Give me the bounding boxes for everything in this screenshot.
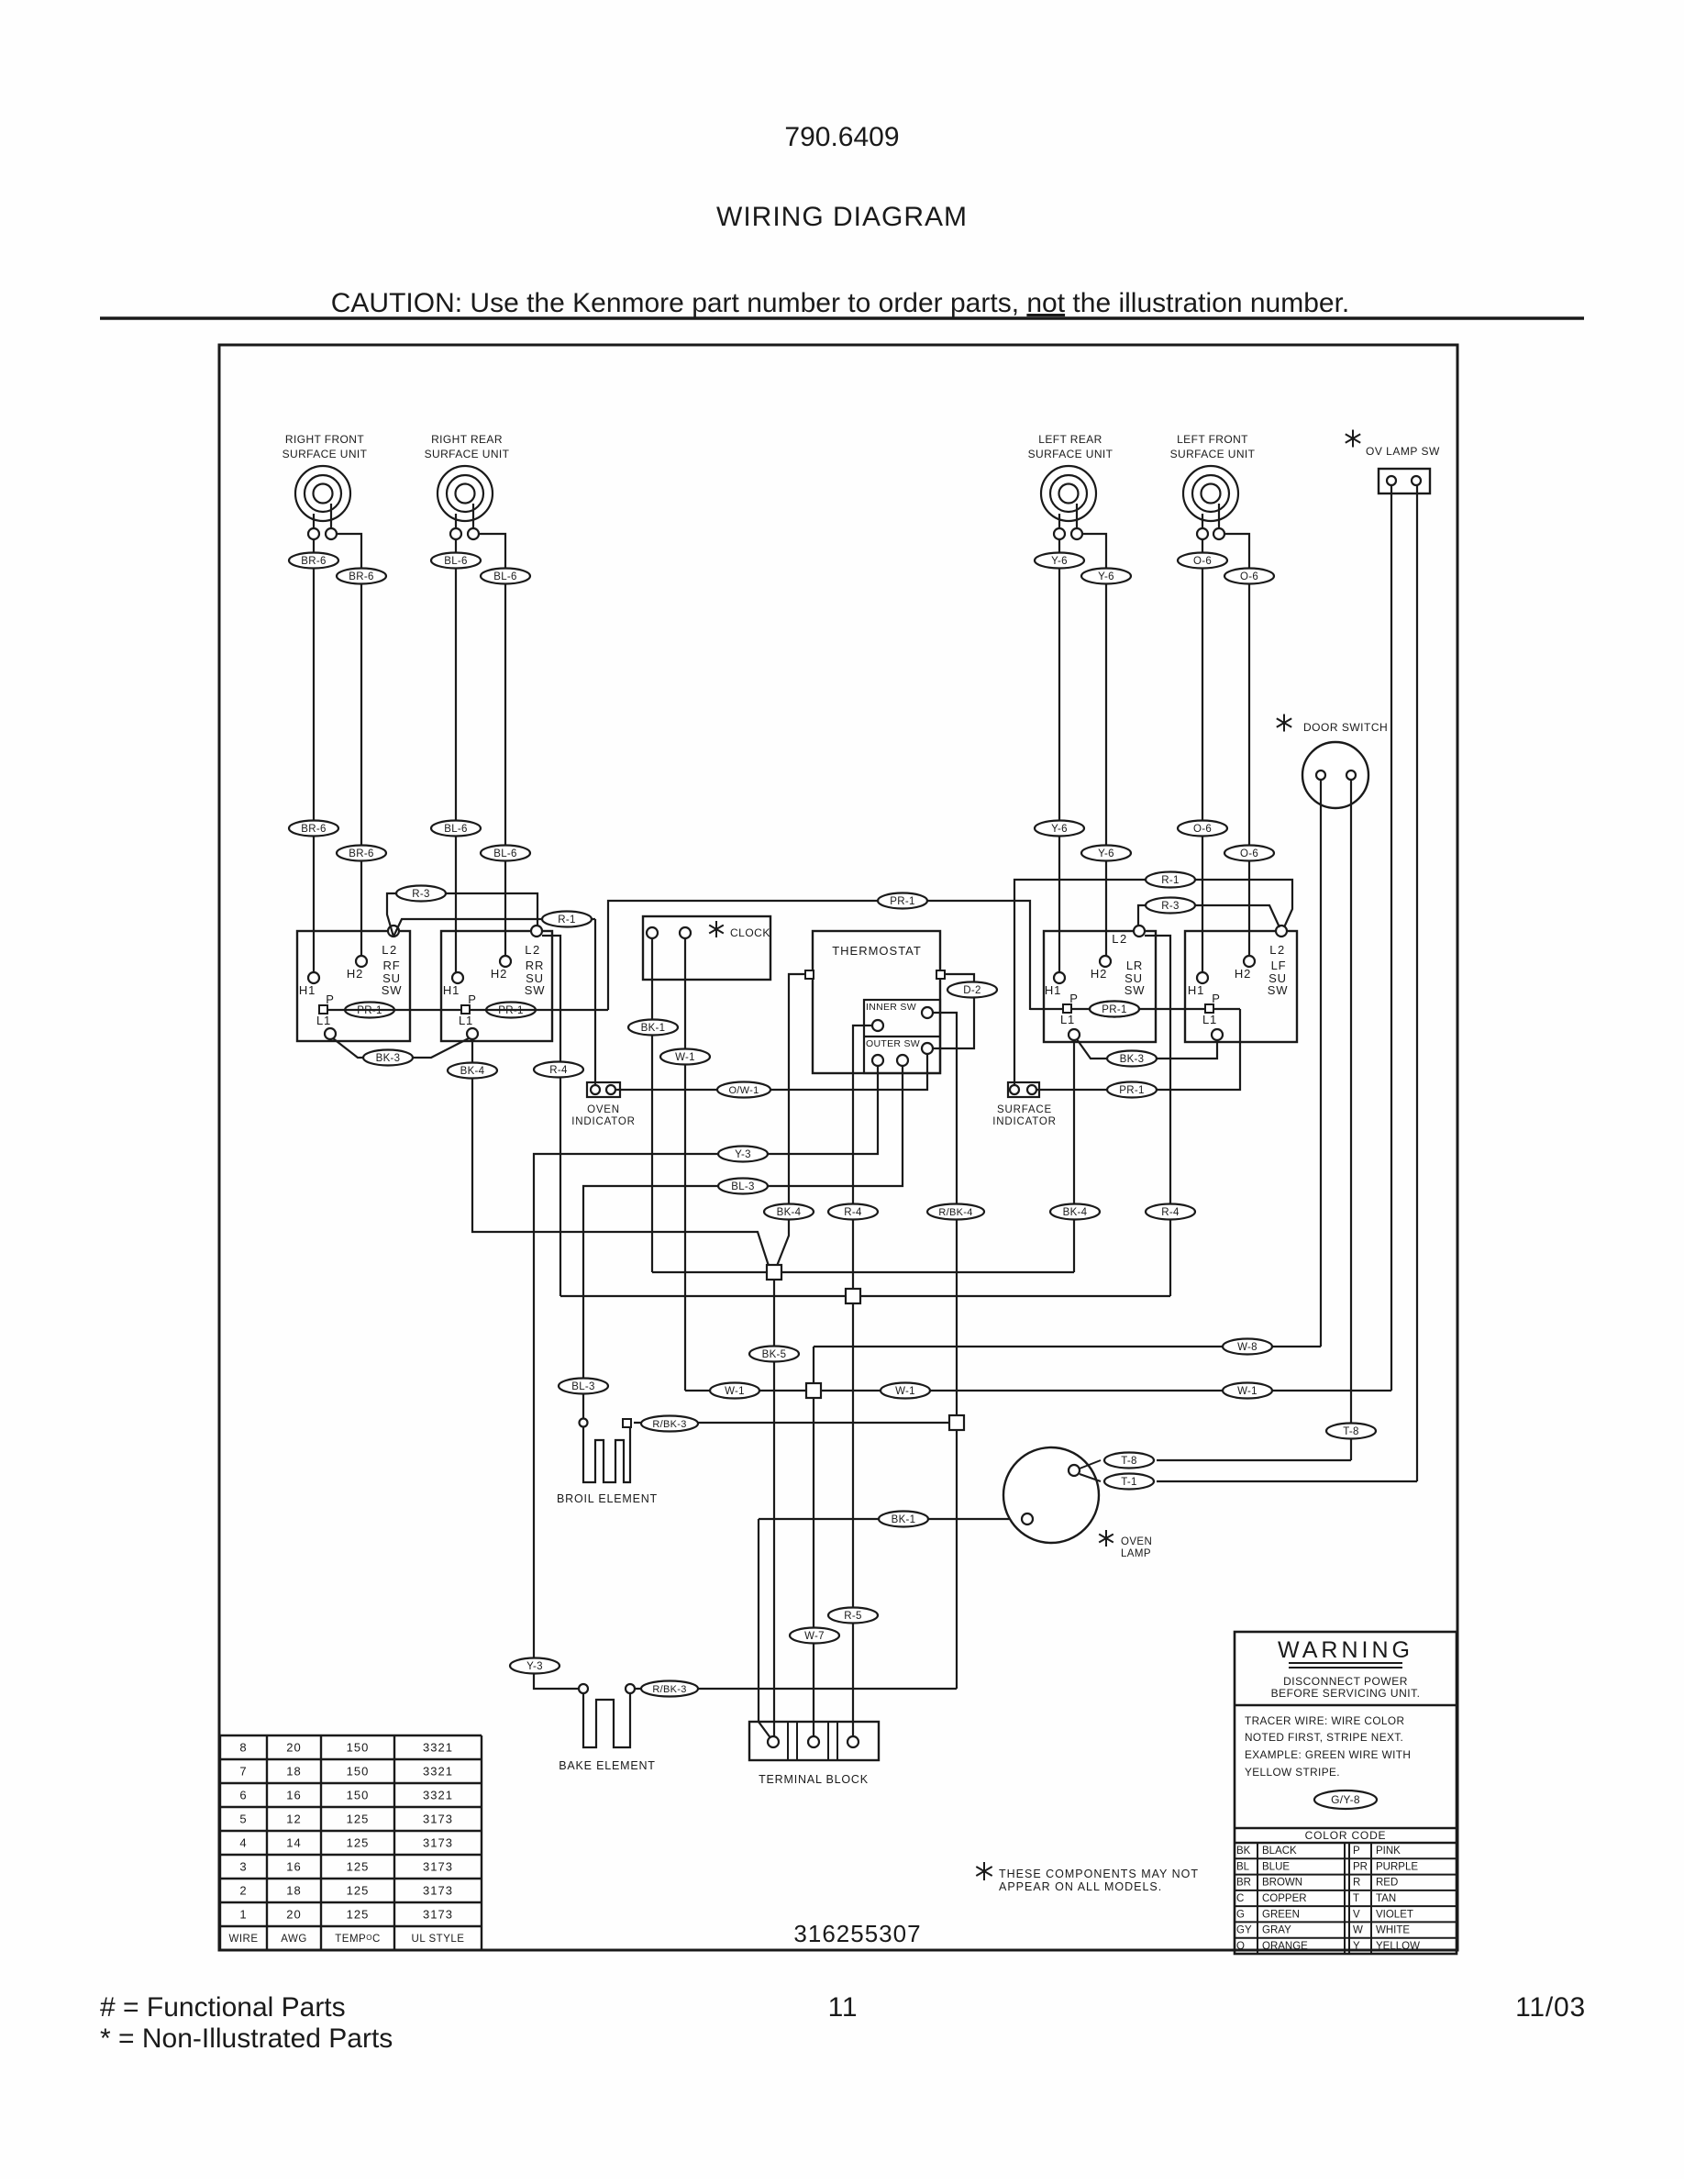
svg-text:6: 6 [239, 1789, 247, 1802]
svg-text:16: 16 [286, 1860, 301, 1874]
svg-text:SURFACE UNIT: SURFACE UNIT [1028, 448, 1113, 460]
svg-text:SW: SW [1125, 983, 1146, 997]
svg-text:O-6: O-6 [1193, 824, 1212, 835]
svg-text:Y-6: Y-6 [1051, 556, 1068, 567]
svg-text:COLOR CODE: COLOR CODE [1305, 1829, 1387, 1842]
svg-text:3321: 3321 [423, 1765, 453, 1779]
svg-text:3173: 3173 [423, 1908, 453, 1922]
svg-text:RIGHT REAR: RIGHT REAR [431, 433, 503, 446]
svg-text:O: O [1236, 1941, 1245, 1952]
svg-text:O-6: O-6 [1240, 571, 1258, 582]
svg-text:TERMINAL BLOCK: TERMINAL BLOCK [759, 1773, 869, 1786]
svg-text:W-1: W-1 [895, 1386, 915, 1397]
svg-text:3: 3 [239, 1860, 247, 1874]
svg-text:16: 16 [286, 1789, 301, 1802]
svg-text:P: P [1353, 1846, 1360, 1857]
svg-text:COPPER: COPPER [1262, 1893, 1307, 1904]
svg-text:LEFT REAR: LEFT REAR [1038, 433, 1102, 446]
svg-text:NOTED FIRST, STRIPE NEXT.: NOTED FIRST, STRIPE NEXT. [1245, 1731, 1403, 1744]
svg-text:1: 1 [239, 1908, 247, 1922]
svg-text:EXAMPLE: GREEN WIRE WITH: EXAMPLE: GREEN WIRE WITH [1245, 1748, 1411, 1761]
svg-text:THERMOSTAT: THERMOSTAT [832, 944, 922, 958]
svg-text:H1: H1 [1188, 983, 1204, 997]
svg-text:R-4: R-4 [844, 1207, 862, 1218]
svg-text:BK: BK [1236, 1846, 1251, 1857]
svg-text:PINK: PINK [1376, 1846, 1401, 1857]
svg-text:P: P [468, 992, 476, 1006]
svg-text:# = Functional Parts: # = Functional Parts [100, 1992, 346, 2023]
svg-text:C: C [1236, 1893, 1244, 1904]
svg-text:PR-1: PR-1 [1119, 1085, 1144, 1096]
svg-text:Y-3: Y-3 [735, 1149, 751, 1160]
svg-text:O-6: O-6 [1240, 848, 1258, 859]
svg-text:BL-6: BL-6 [444, 824, 468, 835]
svg-text:BK-3: BK-3 [376, 1053, 401, 1064]
svg-text:P: P [1212, 992, 1220, 1005]
svg-text:BAKE ELEMENT: BAKE ELEMENT [559, 1759, 655, 1772]
svg-text:WIRE: WIRE [228, 1934, 258, 1945]
svg-text:GY: GY [1236, 1925, 1252, 1936]
svg-text:125: 125 [347, 1908, 370, 1922]
svg-text:PR: PR [1353, 1861, 1368, 1872]
svg-text:125: 125 [347, 1836, 370, 1850]
svg-text:APPEAR ON ALL MODELS.: APPEAR ON ALL MODELS. [999, 1880, 1162, 1893]
svg-text:WARNING: WARNING [1278, 1637, 1413, 1663]
svg-text:D-2: D-2 [963, 985, 980, 996]
svg-text:YELLOW: YELLOW [1376, 1941, 1420, 1952]
svg-text:BROIL ELEMENT: BROIL ELEMENT [557, 1492, 658, 1505]
svg-text:W-1: W-1 [675, 1052, 695, 1063]
svg-text:3321: 3321 [423, 1789, 453, 1802]
svg-text:L2: L2 [1269, 943, 1285, 957]
svg-text:L2: L2 [525, 943, 540, 957]
svg-text:W: W [1353, 1925, 1363, 1936]
svg-text:R-1: R-1 [1161, 875, 1179, 886]
svg-text:BK-1: BK-1 [641, 1023, 666, 1034]
svg-text:12: 12 [286, 1813, 301, 1826]
svg-text:T: T [1353, 1893, 1359, 1904]
svg-text:LEFT FRONT: LEFT FRONT [1177, 433, 1248, 446]
svg-text:3173: 3173 [423, 1860, 453, 1874]
svg-text:SW: SW [382, 983, 403, 997]
svg-text:125: 125 [347, 1813, 370, 1826]
svg-text:CLOCK: CLOCK [730, 926, 770, 939]
svg-text:GRAY: GRAY [1262, 1925, 1291, 1936]
svg-text:14: 14 [286, 1836, 301, 1850]
svg-text:PURPLE: PURPLE [1376, 1861, 1418, 1872]
svg-text:TAN: TAN [1376, 1893, 1396, 1904]
svg-text:125: 125 [347, 1860, 370, 1874]
svg-text:Y-6: Y-6 [1098, 848, 1114, 859]
svg-text:4: 4 [239, 1836, 247, 1850]
svg-text:Y-3: Y-3 [526, 1661, 543, 1672]
svg-text:18: 18 [286, 1884, 301, 1898]
svg-text:W-7: W-7 [804, 1631, 825, 1642]
svg-text:BR-6: BR-6 [349, 571, 373, 582]
svg-text:L2: L2 [1112, 932, 1127, 946]
svg-text:BL-6: BL-6 [493, 848, 517, 859]
svg-text:R-4: R-4 [549, 1065, 568, 1076]
svg-text:18: 18 [286, 1765, 301, 1779]
svg-text:CAUTION: Use the Kenmore part: CAUTION: Use the Kenmore part number to … [331, 288, 1350, 318]
svg-text:BLACK: BLACK [1262, 1846, 1297, 1857]
svg-text:125: 125 [347, 1884, 370, 1898]
svg-text:7: 7 [239, 1765, 247, 1779]
svg-text:L1: L1 [1202, 1013, 1217, 1026]
svg-text:3321: 3321 [423, 1741, 453, 1755]
svg-text:SURFACE UNIT: SURFACE UNIT [283, 448, 368, 460]
svg-text:SURFACE UNIT: SURFACE UNIT [425, 448, 510, 460]
svg-text:3173: 3173 [423, 1884, 453, 1898]
svg-text:INDICATOR: INDICATOR [571, 1116, 635, 1127]
svg-text:VIOLET: VIOLET [1376, 1909, 1413, 1920]
svg-text:11/03: 11/03 [1515, 1992, 1586, 2023]
svg-text:L1: L1 [316, 1014, 331, 1027]
svg-text:L1: L1 [1060, 1013, 1075, 1026]
svg-text:RIGHT FRONT: RIGHT FRONT [285, 433, 364, 446]
svg-text:H2: H2 [1235, 967, 1251, 981]
svg-text:20: 20 [286, 1741, 301, 1755]
svg-text:5: 5 [239, 1813, 247, 1826]
svg-text:H1: H1 [299, 983, 316, 997]
svg-text:O/W-1: O/W-1 [728, 1085, 759, 1096]
svg-text:BK-4: BK-4 [460, 1066, 485, 1077]
svg-text:3173: 3173 [423, 1836, 453, 1850]
svg-text:Y: Y [1353, 1941, 1360, 1952]
svg-text:* = Non-Illustrated Parts: * = Non-Illustrated Parts [100, 2023, 393, 2054]
svg-text:RR: RR [526, 959, 544, 972]
svg-text:W-8: W-8 [1237, 1342, 1257, 1353]
svg-text:BL-3: BL-3 [731, 1181, 755, 1192]
svg-text:H1: H1 [443, 983, 460, 997]
svg-text:P: P [326, 992, 334, 1006]
svg-text:G: G [1236, 1909, 1245, 1920]
svg-text:BR-6: BR-6 [301, 824, 326, 835]
svg-text:R: R [1353, 1878, 1360, 1889]
svg-text:RF: RF [383, 959, 401, 972]
svg-text:H2: H2 [347, 967, 363, 981]
svg-text:L1: L1 [459, 1014, 473, 1027]
svg-text:GREEN: GREEN [1262, 1909, 1300, 1920]
svg-text:2: 2 [239, 1884, 247, 1898]
svg-text:Y-6: Y-6 [1051, 824, 1068, 835]
svg-text:AWG: AWG [281, 1934, 307, 1945]
svg-text:H2: H2 [491, 967, 507, 981]
svg-text:L2: L2 [382, 943, 397, 957]
svg-text:UL STYLE: UL STYLE [412, 1934, 465, 1945]
svg-text:20: 20 [286, 1908, 301, 1922]
svg-text:R-5: R-5 [844, 1611, 861, 1622]
svg-text:WIRING DIAGRAM: WIRING DIAGRAM [716, 202, 968, 232]
svg-text:BK-4: BK-4 [1063, 1207, 1088, 1218]
svg-text:BK-3: BK-3 [1120, 1054, 1145, 1065]
svg-text:BR-6: BR-6 [301, 556, 326, 567]
svg-text:PR-1: PR-1 [1102, 1004, 1126, 1015]
svg-text:R-1: R-1 [558, 915, 575, 926]
svg-text:BR: BR [1236, 1878, 1251, 1889]
svg-text:T-8: T-8 [1121, 1456, 1137, 1467]
svg-text:BK-5: BK-5 [762, 1349, 787, 1360]
svg-text:316255307: 316255307 [793, 1920, 921, 1947]
svg-text:INDICATOR: INDICATOR [992, 1116, 1056, 1127]
svg-text:790.6409: 790.6409 [784, 122, 899, 152]
svg-text:BL: BL [1236, 1861, 1250, 1872]
svg-text:R-3: R-3 [412, 889, 429, 900]
svg-text:RED: RED [1376, 1878, 1398, 1889]
svg-text:SW: SW [525, 983, 546, 997]
svg-text:INNER SW: INNER SW [866, 1002, 916, 1013]
svg-text:BK-4: BK-4 [777, 1207, 802, 1218]
svg-text:ORANGE: ORANGE [1262, 1941, 1308, 1952]
svg-text:BLUE: BLUE [1262, 1861, 1290, 1872]
svg-text:TRACER WIRE: WIRE COLOR: TRACER WIRE: WIRE COLOR [1245, 1714, 1404, 1727]
svg-text:R/BK-3: R/BK-3 [652, 1684, 686, 1695]
svg-text:T-1: T-1 [1121, 1477, 1137, 1488]
svg-text:YELLOW STRIPE.: YELLOW STRIPE. [1245, 1766, 1340, 1779]
svg-text:WHITE: WHITE [1376, 1925, 1410, 1936]
svg-text:LAMP: LAMP [1121, 1548, 1151, 1559]
svg-text:Y-6: Y-6 [1098, 571, 1114, 582]
svg-text:BL-3: BL-3 [571, 1381, 595, 1392]
svg-text:G/Y-8: G/Y-8 [1331, 1793, 1360, 1806]
svg-text:3173: 3173 [423, 1813, 453, 1826]
svg-text:150: 150 [347, 1765, 370, 1779]
svg-text:BK-1: BK-1 [892, 1514, 916, 1525]
svg-text:R/BK-3: R/BK-3 [652, 1419, 686, 1430]
svg-text:LF: LF [1271, 959, 1287, 972]
svg-text:O-6: O-6 [1193, 556, 1212, 567]
svg-text:SURFACE UNIT: SURFACE UNIT [1170, 448, 1256, 460]
svg-text:DOOR SWITCH: DOOR SWITCH [1303, 721, 1388, 734]
svg-text:PR-1: PR-1 [890, 896, 914, 907]
svg-text:DISCONNECT POWER: DISCONNECT POWER [1283, 1675, 1408, 1688]
svg-text:H1: H1 [1045, 983, 1061, 997]
svg-text:BROWN: BROWN [1262, 1878, 1302, 1889]
svg-text:OUTER SW: OUTER SW [866, 1038, 920, 1049]
svg-text:11: 11 [828, 1992, 859, 2023]
svg-text:150: 150 [347, 1789, 370, 1802]
svg-text:W-1: W-1 [1237, 1386, 1257, 1397]
svg-text:BL-6: BL-6 [493, 571, 517, 582]
svg-text:BL-6: BL-6 [444, 556, 468, 567]
svg-text:H2: H2 [1091, 967, 1107, 981]
svg-text:R-4: R-4 [1161, 1207, 1180, 1218]
svg-text:OVEN: OVEN [1121, 1536, 1152, 1547]
svg-text:BEFORE SERVICING UNIT.: BEFORE SERVICING UNIT. [1271, 1687, 1421, 1700]
svg-text:W-1: W-1 [725, 1386, 745, 1397]
svg-text:150: 150 [347, 1741, 370, 1755]
svg-text:SURFACE: SURFACE [997, 1104, 1052, 1115]
svg-text:R/BK-4: R/BK-4 [938, 1207, 972, 1218]
svg-text:SW: SW [1268, 983, 1289, 997]
svg-text:LR: LR [1126, 959, 1143, 972]
svg-text:R-3: R-3 [1161, 901, 1179, 912]
svg-text:OVEN: OVEN [587, 1104, 620, 1115]
svg-text:P: P [1069, 992, 1078, 1005]
svg-text:OV LAMP SW: OV LAMP SW [1366, 445, 1440, 458]
svg-text:V: V [1353, 1909, 1360, 1920]
svg-text:8: 8 [239, 1741, 247, 1755]
svg-text:T-8: T-8 [1343, 1426, 1359, 1437]
svg-text:THESE COMPONENTS MAY NOT: THESE COMPONENTS MAY NOT [999, 1868, 1199, 1880]
svg-text:BR-6: BR-6 [349, 848, 373, 859]
svg-text:TEMPOC: TEMPOC [335, 1934, 381, 1945]
